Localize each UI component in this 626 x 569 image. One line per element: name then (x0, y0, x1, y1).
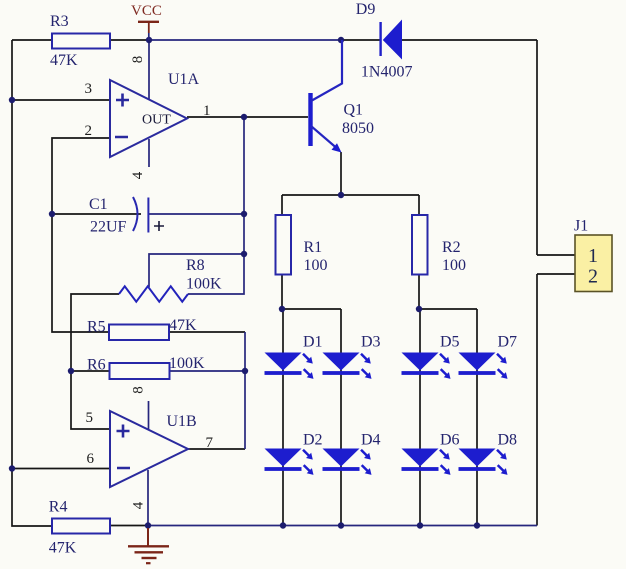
svg-text:8: 8 (130, 56, 146, 64)
svg-text:1: 1 (588, 245, 598, 267)
svg-text:R3: R3 (50, 13, 69, 30)
svg-text:2: 2 (85, 123, 93, 139)
svg-text:D2: D2 (303, 432, 323, 449)
svg-text:47K: 47K (49, 540, 77, 557)
svg-text:47K: 47K (169, 317, 197, 334)
svg-text:6: 6 (87, 451, 95, 467)
svg-text:R8: R8 (186, 257, 205, 274)
svg-text:22UF: 22UF (90, 219, 127, 236)
svg-text:C1: C1 (89, 196, 108, 213)
svg-text:2: 2 (588, 266, 598, 288)
svg-text:D3: D3 (361, 334, 381, 351)
svg-text:5: 5 (86, 410, 94, 426)
svg-text:R1: R1 (304, 239, 323, 256)
svg-text:D6: D6 (440, 432, 460, 449)
svg-text:1N4007: 1N4007 (361, 64, 413, 81)
svg-text:100K: 100K (169, 355, 205, 372)
svg-text:D9: D9 (356, 1, 376, 18)
svg-text:3: 3 (85, 81, 93, 97)
svg-text:U1A: U1A (168, 71, 200, 88)
svg-text:8050: 8050 (342, 120, 374, 137)
svg-text:1: 1 (203, 103, 211, 119)
svg-text:VCC: VCC (131, 3, 162, 19)
svg-text:R2: R2 (442, 239, 461, 256)
svg-text:4: 4 (130, 171, 146, 179)
svg-text:D8: D8 (498, 432, 518, 449)
svg-text:7: 7 (206, 435, 214, 451)
svg-text:D1: D1 (303, 334, 323, 351)
svg-text:47K: 47K (50, 52, 78, 69)
svg-text:R5: R5 (87, 319, 106, 336)
svg-text:8: 8 (131, 386, 147, 394)
svg-text:100: 100 (304, 257, 328, 274)
svg-text:Q1: Q1 (344, 102, 364, 119)
svg-text:R6: R6 (87, 357, 106, 374)
svg-text:U1B: U1B (167, 413, 197, 430)
svg-text:D7: D7 (498, 334, 518, 351)
svg-text:OUT: OUT (142, 113, 171, 128)
svg-text:4: 4 (131, 501, 147, 509)
svg-text:R4: R4 (49, 499, 68, 516)
svg-text:100K: 100K (186, 276, 222, 293)
svg-text:D4: D4 (361, 432, 381, 449)
svg-text:D5: D5 (440, 334, 460, 351)
svg-text:100: 100 (442, 257, 466, 274)
svg-text:J1: J1 (574, 218, 588, 235)
